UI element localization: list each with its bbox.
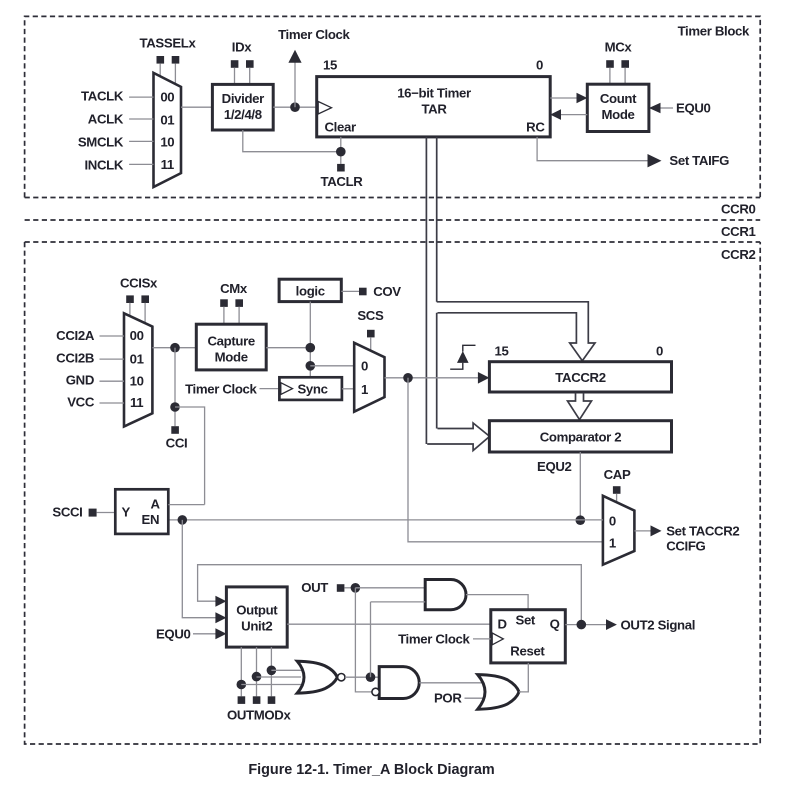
CCR1 divider dashed line [25, 241, 761, 243]
svg-text:VCC: VCC [67, 395, 95, 410]
wire CCI2A to mux [100, 335, 125, 337]
CCISx select stems [129, 303, 131, 317]
node SCS out junction [403, 373, 413, 383]
wire OR out to FF reset [519, 663, 528, 692]
svg-text:COV: COV [373, 284, 401, 299]
svg-text:Timer Block: Timer Block [678, 24, 750, 39]
svg-text:1: 1 [361, 382, 368, 397]
node OUT junction [351, 583, 361, 593]
wire RC to Set TAIFG [537, 137, 648, 161]
TACCR2 box [489, 362, 671, 392]
svg-text:00: 00 [160, 90, 174, 105]
svg-text:SCCI: SCCI [52, 505, 82, 520]
FF clock triangle [492, 633, 503, 645]
COV square [359, 288, 367, 296]
16-bit Timer TAR box [317, 77, 551, 137]
svg-text:Unit2: Unit2 [241, 619, 272, 634]
svg-text:Comparator 2: Comparator 2 [540, 429, 622, 444]
wire timer clock to sync [260, 388, 280, 390]
wire CCI2B to mux [100, 358, 125, 360]
wire junction to SCS mux 0 [310, 365, 354, 367]
svg-text:Set TAIFG: Set TAIFG [669, 153, 729, 168]
wire logic to COV [341, 290, 359, 292]
mux U_SCS [354, 343, 384, 412]
CCISx select squares [126, 295, 134, 303]
svg-text:0: 0 [656, 344, 663, 359]
wire TAR to count mode arrow [550, 97, 577, 99]
wire EQU2 down [579, 452, 581, 520]
flip-flop labels [498, 613, 560, 659]
capture edge glyph [450, 345, 475, 369]
wire NOR input 1 [271, 669, 302, 671]
svg-text:OUTMODx: OUTMODx [227, 708, 292, 723]
wire sync to SCS mux 1 [342, 388, 354, 390]
wire INCLK to mux [129, 163, 153, 165]
svg-text:Timer Clock: Timer Clock [185, 381, 257, 396]
wire OUT square to junction [344, 587, 355, 589]
count mode labels [600, 91, 637, 122]
arrowhead EQU0 into output unit [215, 628, 226, 639]
svg-text:Timer Clock: Timer Clock [278, 27, 350, 42]
wire OUT down to NAND [355, 588, 371, 692]
wire outmod stem 1 [240, 647, 242, 696]
svg-text:TASSELx: TASSELx [140, 36, 197, 51]
svg-text:Divider: Divider [222, 91, 264, 106]
node EQU2 junction [576, 515, 586, 525]
wire NAND out to OR [419, 682, 484, 684]
wire GND to mux [100, 380, 125, 382]
wire POR to OR [465, 697, 486, 699]
sync clock triangle [281, 383, 293, 395]
wire count mode to TAR arrow [561, 114, 587, 116]
CAP mux labels [609, 514, 616, 551]
logic box [279, 279, 341, 301]
TASSELx select stems [159, 63, 161, 76]
IDx select stems [234, 68, 236, 85]
mux labels 00 01 10 11 [160, 90, 174, 173]
svg-text:Timer Clock: Timer Clock [398, 632, 470, 647]
node sync junction [306, 361, 316, 371]
svg-text:10: 10 [130, 374, 144, 389]
svg-text:CCI2A: CCI2A [56, 328, 95, 343]
svg-text:0: 0 [536, 58, 543, 73]
divider box [212, 84, 273, 130]
svg-text:CAP: CAP [604, 467, 631, 482]
svg-text:MCx: MCx [605, 40, 633, 55]
TAR labels [325, 86, 546, 135]
OUT square [337, 584, 345, 592]
capture arrowhead into TACCR2 [478, 372, 490, 384]
svg-text:POR: POR [434, 691, 462, 706]
node Q junction [577, 620, 587, 630]
wire SMCLK to mux [129, 140, 153, 142]
mux U_CCIS [124, 313, 152, 426]
CMx select squares [220, 299, 228, 307]
wire AND out to FF set [466, 595, 528, 610]
node timer clock junction [290, 102, 300, 112]
mux U_TASSEL [154, 73, 182, 187]
svg-text:TAR: TAR [421, 102, 447, 117]
svg-text:Output: Output [236, 603, 278, 618]
wire NOR input 3 [241, 684, 302, 686]
MCx select stems [609, 68, 611, 85]
wire CCI branch to A input [175, 407, 205, 505]
svg-text:Reset: Reset [510, 644, 545, 659]
svg-text:1: 1 [609, 536, 616, 551]
wire EQU0 to output unit [193, 633, 216, 635]
svg-text:01: 01 [160, 112, 174, 127]
svg-text:Q: Q [550, 616, 560, 631]
svg-text:CCR1: CCR1 [721, 224, 756, 239]
wire TACLK to mux [129, 96, 153, 98]
wire divider bottom to TACLR [243, 130, 341, 152]
wire mux to divider [181, 106, 212, 108]
svg-text:CCIFG: CCIFG [666, 539, 705, 554]
NAND input bubble [372, 688, 379, 695]
wire Q out [565, 624, 607, 626]
wire CCI down [174, 348, 176, 427]
svg-text:15: 15 [323, 58, 337, 73]
wire OUT to AND gate [355, 587, 425, 589]
latch Y A EN box [115, 489, 168, 534]
svg-text:1/2/4/8: 1/2/4/8 [224, 107, 262, 122]
node capture junction [306, 343, 316, 353]
svg-text:15: 15 [495, 344, 509, 359]
svg-text:A: A [151, 497, 161, 512]
CCR2 dashed border [25, 242, 761, 744]
svg-text:11: 11 [130, 395, 143, 410]
CMx select stems [223, 307, 225, 325]
TASSELx select squares [157, 56, 165, 64]
svg-text:CCI: CCI [166, 436, 188, 451]
svg-text:Figure 12-1. Timer_A Block Dia: Figure 12-1. Timer_A Block Diagram [248, 762, 494, 778]
OR gate U_OR [478, 675, 519, 710]
svg-text:Set TACCR2: Set TACCR2 [666, 524, 739, 539]
wire AND lower input [371, 601, 426, 603]
svg-text:ACLK: ACLK [88, 111, 124, 126]
wire Q feedback loop [198, 565, 582, 625]
svg-text:00: 00 [130, 328, 144, 343]
SCS stem [370, 337, 372, 351]
NAND gate U_NAND [379, 667, 419, 699]
node TACLR junction [336, 147, 346, 157]
comparator 2 box [489, 421, 671, 452]
arrowhead EN into output unit [215, 612, 226, 623]
wire TAR clear down [340, 137, 342, 164]
svg-text:0: 0 [361, 358, 368, 373]
svg-text:01: 01 [130, 352, 144, 367]
IDx select squares [231, 60, 239, 68]
node NOR input 2 [252, 672, 262, 682]
wire CCIS mux to capture mode [152, 347, 196, 349]
svg-text:EQU0: EQU0 [156, 626, 191, 641]
capture mode labels [208, 334, 255, 365]
node NOR input 3 [237, 680, 247, 690]
NOR output bubble [338, 674, 345, 681]
bus hollow arrow TACCR2 to comparator [568, 393, 592, 420]
wire NOR out up to AND [370, 602, 372, 677]
wire NOR input 2 [257, 676, 302, 678]
svg-text:10: 10 [160, 135, 174, 150]
divider label [222, 91, 264, 122]
latch labels [122, 497, 161, 528]
node NOR out junction [366, 672, 376, 682]
svg-text:EQU0: EQU0 [676, 101, 711, 116]
output unit2 box [226, 587, 287, 647]
Timer Block dashed border [25, 16, 761, 197]
TACLR square [337, 164, 345, 172]
wire CAP mux out [634, 530, 651, 532]
node EN junction [178, 515, 188, 525]
svg-text:SCS: SCS [357, 308, 384, 323]
svg-text:11: 11 [161, 157, 174, 172]
svg-text:Mode: Mode [601, 107, 634, 122]
node NOR input 1 [267, 666, 277, 676]
wire VCC to mux [100, 402, 125, 404]
SCS mux labels [361, 358, 368, 397]
wire SCS branch down to CAP mux 1 [408, 378, 603, 542]
wire A input from CCI [168, 504, 204, 506]
bus branch to TACCR2 hollow arrow [437, 302, 595, 361]
CCR0 divider dashed line [25, 219, 761, 221]
wire ACLK to mux [129, 118, 153, 120]
CAP stem [616, 494, 618, 503]
svg-text:TACLK: TACLK [81, 88, 124, 103]
MCx select squares [606, 60, 614, 68]
svg-text:SMCLK: SMCLK [78, 134, 124, 149]
svg-text:Mode: Mode [215, 350, 248, 365]
wire capture mode to junction [266, 347, 310, 349]
svg-text:TACLR: TACLR [321, 174, 364, 189]
wire divider to TAR [273, 106, 317, 108]
SCS square [367, 330, 375, 338]
wire EN long line to CAP mux 0 [168, 519, 603, 521]
svg-text:GND: GND [66, 373, 94, 388]
svg-text:Capture: Capture [208, 334, 255, 349]
svg-text:CCI2B: CCI2B [56, 351, 94, 366]
svg-text:D: D [498, 616, 507, 631]
svg-text:EN: EN [142, 512, 160, 527]
bus hollow arrow into comparator [427, 423, 489, 451]
AND gate U_AND [425, 580, 466, 610]
CAP square [613, 486, 621, 494]
NOR gate U_NOR [297, 661, 337, 693]
OUTMODx squares [238, 696, 276, 704]
wire SCCI to Y [97, 512, 116, 514]
svg-text:Set: Set [516, 613, 536, 628]
wire output unit to D input [287, 623, 491, 625]
label Set TACCR2 CCIFG [666, 524, 739, 554]
bus wire TAR bottom right [436, 137, 438, 429]
CCI square [171, 426, 179, 434]
arrowhead EQU2 into output unit [215, 596, 226, 607]
svg-text:16−bit Timer: 16−bit Timer [397, 86, 471, 101]
SCCI square [89, 509, 97, 517]
svg-text:TACCR2: TACCR2 [555, 370, 605, 385]
wire EQU0 to count mode [660, 107, 673, 109]
svg-text:OUT: OUT [301, 580, 328, 595]
svg-text:CMx: CMx [220, 281, 248, 296]
wire outmod stem 2 [256, 647, 258, 696]
svg-text:Count: Count [600, 91, 637, 106]
mux labels 00 01 10 11 [130, 328, 144, 410]
svg-text:CCR0: CCR0 [721, 202, 756, 217]
svg-text:CCISx: CCISx [120, 276, 158, 291]
svg-text:CCR2: CCR2 [721, 247, 756, 262]
arrowhead OUT2 [606, 619, 617, 630]
TAR clock triangle [318, 102, 331, 115]
node CCI branch [170, 402, 180, 412]
wire timer clock up arrow [294, 62, 296, 107]
capture mode box [196, 324, 266, 370]
svg-text:Clear: Clear [325, 120, 356, 135]
sync box [279, 377, 342, 400]
wire EN down to output unit [182, 520, 216, 618]
node CCI junction [170, 343, 180, 353]
count mode box [587, 84, 649, 131]
svg-text:EQU2: EQU2 [537, 459, 572, 474]
svg-text:OUT2 Signal: OUT2 Signal [621, 617, 696, 632]
output unit2 labels [236, 603, 278, 634]
wire timer clock to FF [473, 638, 491, 640]
svg-text:logic: logic [296, 284, 325, 299]
svg-text:IDx: IDx [232, 40, 252, 55]
wire SCS mux out to TACCR2 [385, 377, 480, 379]
wire NOR out to NAND [345, 676, 379, 678]
svg-text:Sync: Sync [297, 381, 327, 396]
wire outmod stem 3 [270, 647, 272, 696]
svg-text:RC: RC [526, 120, 545, 135]
svg-text:INCLK: INCLK [84, 157, 123, 172]
wire logic down to sync [309, 302, 311, 378]
flip-flop box [491, 610, 566, 663]
mux U_CAP [603, 496, 635, 565]
svg-text:Y: Y [122, 505, 131, 520]
svg-text:0: 0 [609, 514, 616, 529]
bus wire TAR bottom left [425, 137, 427, 444]
